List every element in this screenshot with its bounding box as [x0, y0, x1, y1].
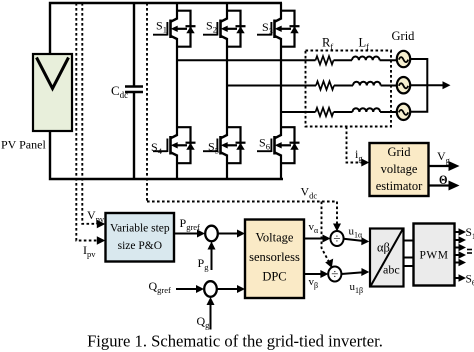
- node: Qgref arrowhead: [196, 285, 204, 293]
- wire: P sum output arrow: [218, 233, 239, 235]
- svg-text:S1: S1: [156, 19, 167, 35]
- capacitor Cdc: [125, 3, 143, 179]
- wire: abc to PWM stub 3: [404, 265, 414, 267]
- AC source grid phase A: [397, 51, 410, 67]
- wire: [381, 85, 397, 87]
- wire: phase leg A vertical: [176, 3, 178, 179]
- svg-text:Rf: Rf: [322, 36, 333, 52]
- transistor S4 (switch with antiparallel diode): [153, 127, 196, 163]
- PV panel (solar module): [33, 54, 72, 131]
- svg-text:S2: S2: [206, 19, 217, 35]
- node: v-alpha arrowhead: [323, 235, 331, 243]
- node: Vg arrowhead: [449, 161, 460, 171]
- wire: Vpv sense dashed vertical: [82, 3, 97, 224]
- node: summing junction Q: [204, 281, 217, 297]
- wire: Vg output arrow: [429, 165, 450, 167]
- filter dashed box: [306, 51, 392, 127]
- resistor Rf phase A: [316, 56, 334, 64]
- svg-text:Grid: Grid: [392, 29, 416, 43]
- wire: [334, 85, 353, 87]
- svg-text:Ipv: Ipv: [83, 243, 96, 259]
- node: Ipv arrowhead into P&O: [97, 236, 106, 244]
- wire: DC bus top rail: [50, 3, 282, 54]
- svg-text:u1α: u1α: [349, 226, 364, 240]
- wire: PWM gate output arrows S1..S6: [455, 228, 467, 282]
- svg-text:u1β: u1β: [350, 281, 364, 295]
- wire: v-alpha line: [304, 238, 324, 240]
- svg-text:Qg: Qg: [197, 314, 211, 330]
- svg-text:Grid: Grid: [388, 145, 412, 159]
- svg-text:S6: S6: [259, 136, 270, 152]
- wire: Qg feedback arrow: [210, 303, 212, 330]
- transistor S2 (switch with antiparallel diode): [203, 11, 246, 47]
- resistor Rf phase C: [316, 108, 334, 116]
- transistor S1 (switch with antiparallel diode): [153, 11, 196, 47]
- wire: Vdc dashed drop to divider 2: [322, 202, 329, 262]
- svg-text:αβ: αβ: [377, 241, 390, 255]
- transistor S6 (switch with antiparallel diode): [257, 127, 300, 163]
- node: Vdc arrowhead into divider 2: [325, 259, 333, 268]
- svg-text:÷: ÷: [333, 231, 340, 246]
- svg-text:PWM: PWM: [420, 250, 449, 262]
- wire: u1-alpha line: [344, 239, 364, 241]
- svg-text:estimator: estimator: [376, 179, 423, 193]
- svg-text:Vpv: Vpv: [87, 208, 105, 224]
- node: arrowhead into DPC: [237, 285, 245, 293]
- AC source grid phase C: [397, 104, 410, 120]
- block U: Grid voltage estimator: [370, 143, 429, 196]
- transistor S5 (switch with antiparallel diode): [203, 127, 246, 163]
- wire: abc to PWM stub 1: [404, 240, 414, 242]
- svg-text:Figure 1. Schematic of the gri: Figure 1. Schematic of the grid-tied inv…: [87, 332, 383, 351]
- wire: Vdc dashed feed line: [147, 201, 337, 203]
- wire: Pgref line: [174, 233, 199, 235]
- wire: [380, 59, 397, 61]
- wire: v-beta line: [304, 273, 322, 275]
- resistor Rf phase B: [316, 81, 334, 89]
- node: v-beta arrowhead: [320, 270, 328, 278]
- wire: Pg feedback arrow: [211, 248, 213, 271]
- svg-text:÷: ÷: [331, 267, 338, 282]
- node: Pgref arrowhead: [197, 230, 205, 238]
- svg-text:S4: S4: [151, 140, 163, 156]
- node: summing junction P: [205, 226, 218, 242]
- svg-text:S6: S6: [466, 274, 474, 288]
- wire: phase B output line: [227, 85, 316, 87]
- wire: ig current sense dashed: [347, 127, 363, 163]
- wire: theta output arrow: [429, 184, 450, 186]
- svg-text:Θ: Θ: [439, 173, 448, 187]
- svg-text:Qgref: Qgref: [149, 279, 172, 295]
- transistor S3 (switch with antiparallel diode): [257, 11, 300, 47]
- wire: Q sum output arrow: [217, 288, 239, 290]
- wire: phase leg C vertical: [280, 3, 282, 179]
- inductor Lf phase A: [352, 57, 380, 61]
- inductor Lf phase B: [353, 82, 381, 86]
- wire: grid neutral bus: [410, 59, 427, 112]
- svg-text:Lf: Lf: [359, 36, 370, 52]
- svg-text:Pgref: Pgref: [180, 216, 201, 232]
- node: arrowhead grid output: [443, 81, 451, 89]
- node: Vdc arrowhead into divider 1: [333, 224, 341, 232]
- wire: [334, 111, 353, 113]
- wire: Ipv sense dashed vertical: [76, 3, 97, 241]
- svg-text:Vdc: Vdc: [301, 185, 318, 201]
- wire: DC bus bottom rail: [50, 131, 283, 179]
- node: ig arrowhead into estimator: [361, 159, 369, 167]
- node: u1-beta arrowhead: [361, 268, 369, 276]
- block: alpha-beta to abc transform: [370, 229, 404, 287]
- node: u1-alpha arrowhead: [361, 237, 369, 245]
- svg-text:Vg: Vg: [437, 149, 451, 165]
- inductor Lf phase C: [353, 108, 381, 112]
- wire: Qgref line: [176, 288, 198, 290]
- svg-text:PV Panel: PV Panel: [1, 138, 46, 152]
- svg-text:voltage: voltage: [381, 162, 418, 176]
- block: Variable step size P&O MPPT: [106, 213, 175, 262]
- svg-text:sensorless: sensorless: [249, 250, 300, 264]
- svg-text:abc: abc: [383, 263, 400, 277]
- node: theta arrowhead: [449, 181, 460, 191]
- node: Pg arrowhead: [208, 242, 216, 250]
- svg-text:vα: vα: [309, 221, 320, 235]
- block: Voltage sensorless DPC: [245, 220, 304, 299]
- wire: phase C output line: [281, 111, 316, 113]
- node: Qg arrowhead: [207, 297, 215, 305]
- wire: grid output arrow: [410, 84, 443, 86]
- node: Vpv arrowhead into P&O: [97, 220, 106, 228]
- wire: [334, 59, 353, 61]
- svg-text:vβ: vβ: [309, 276, 319, 290]
- svg-text:S1: S1: [466, 227, 474, 241]
- svg-text:Voltage: Voltage: [256, 231, 294, 245]
- svg-text:DPC: DPC: [262, 270, 286, 284]
- wire: phase A output line: [177, 59, 316, 61]
- wire: phase leg B vertical: [226, 3, 228, 179]
- AC source grid phase B: [397, 77, 410, 93]
- wire: abc to PWM stub 2: [404, 257, 414, 259]
- wire: Vdc sense dashed vertical from DC link: [146, 3, 148, 202]
- node: arrowhead into DPC: [237, 230, 245, 238]
- wire: u1-beta line: [341, 272, 363, 274]
- svg-text:Variable step: Variable step: [110, 223, 170, 235]
- wire: [380, 111, 397, 113]
- svg-text:size P&O: size P&O: [118, 240, 162, 252]
- wire: Vdc dashed drop to divider 1: [336, 202, 338, 226]
- node: divider circle 2: [328, 267, 341, 282]
- block: PWM modulator: [414, 224, 455, 286]
- svg-text:ig: ig: [355, 147, 363, 163]
- node: divider circle 1: [330, 231, 343, 246]
- label: continuation dots: [467, 250, 472, 254]
- svg-text:Pg: Pg: [198, 256, 210, 272]
